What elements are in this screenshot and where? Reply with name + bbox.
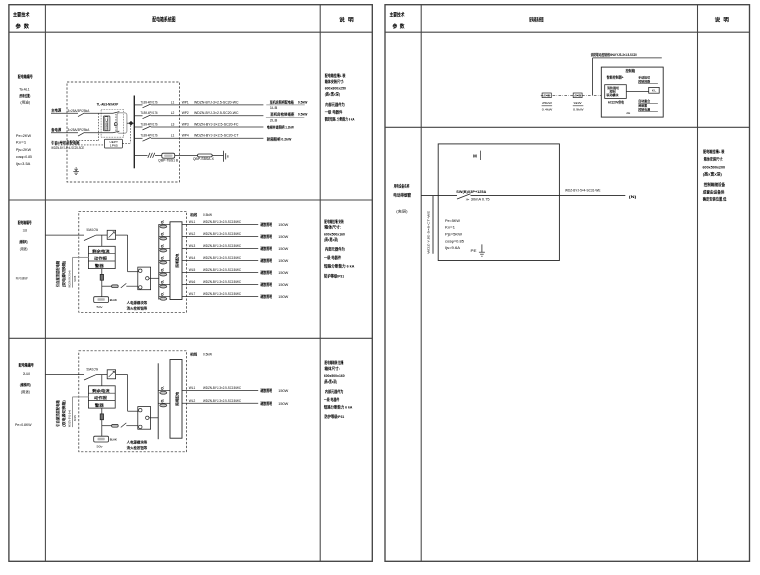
svg-text:9kW: 9kW <box>574 101 582 105</box>
svg-text:成套由设备供: 成套由设备供 <box>703 190 725 195</box>
panel 1LB branch fuse pill <box>112 285 119 288</box>
panel 1LB feeder WL1 pole mark <box>161 221 163 223</box>
svg-text:(用途): (用途) <box>20 246 28 251</box>
panel 2LU8 feeder WL1 stub <box>158 390 170 392</box>
svg-text:50v: 50v <box>97 445 104 449</box>
svg-text:(N): (N) <box>629 194 637 199</box>
JXB1 fraction bar <box>542 105 553 107</box>
svg-text:M: M <box>473 153 477 158</box>
svg-text:150W: 150W <box>278 389 289 393</box>
svg-text:150W: 150W <box>278 247 289 251</box>
panel 2LU8 busbar box <box>170 360 182 439</box>
panel 2LU8 drop to RCD monitor box <box>101 375 103 386</box>
svg-text:箱体尺寸:: 箱体尺寸: <box>324 225 341 230</box>
svg-text:WDZ-BYJ-5×4-SC31-WE: WDZ-BYJ-5×4-SC31-WE <box>565 189 601 193</box>
svg-text:≫ 30mA 0.75: ≫ 30mA 0.75 <box>466 197 490 201</box>
feeder WP4 wire run <box>151 137 264 139</box>
AL1 enclosure dashed box <box>67 82 180 182</box>
panel 2LU8 bell transformer box <box>94 436 109 442</box>
wire ATSE output <box>127 122 134 124</box>
svg-text:WL2: WL2 <box>189 399 196 403</box>
panel 1LB distribution collector line <box>158 224 160 299</box>
panel 1LB bell transformer box <box>94 297 109 303</box>
panel 2LU8 supply elbow vertical <box>72 397 74 427</box>
svg-text:消火栓按钮等: 消火栓按钮等 <box>127 306 148 311</box>
main supply wire <box>421 195 457 197</box>
svg-text:150W: 150W <box>278 271 289 275</box>
panel 2LU8 contactor pole2 circle <box>139 425 142 428</box>
svg-text:600x500x200: 600x500x200 <box>703 164 726 169</box>
svg-text:WL4: WL4 <box>189 256 196 260</box>
feeder WP1 wire run <box>151 104 264 106</box>
svg-text:(高x宽x深): (高x宽x深) <box>324 379 338 384</box>
svg-text:内部元器件为: 内部元器件为 <box>325 102 345 107</box>
feeder WP2 wire from bus <box>134 115 142 117</box>
svg-text:WL5: WL5 <box>189 268 196 272</box>
ATSE motor circle <box>114 123 117 126</box>
right table notes divider x=698 <box>697 5 699 562</box>
dashed control drop left <box>97 113 99 140</box>
panel 1LB feeder WL6 breaker pill <box>160 285 167 288</box>
svg-text:QBP-TBS1 B: QBP-TBS1 B <box>158 159 178 163</box>
svg-text:(双电源切换箱): (双电源切换箱) <box>61 260 66 287</box>
left sheet table frame <box>9 5 372 562</box>
svg-text:配电箱系统图: 配电箱系统图 <box>152 16 176 24</box>
panel 2LU8 feeder WL1 pole mark <box>161 387 163 389</box>
SPD earth bars <box>223 151 225 162</box>
svg-text:SBC: SBC <box>104 118 108 129</box>
dashed drop from output bus <box>130 125 132 143</box>
panel 1LB feeder WL4 stub <box>159 259 170 261</box>
svg-text:WL1: WL1 <box>189 220 196 224</box>
panel 1LB feeder WL2 stub <box>159 235 170 237</box>
right sheet table frame <box>385 5 750 562</box>
svg-text:WL7: WL7 <box>189 292 196 296</box>
svg-text:cosφ=0.85: cosφ=0.85 <box>16 155 32 159</box>
panel 1LB branch switch blade <box>121 283 127 288</box>
riser cable drop <box>432 196 434 254</box>
feeder WP3 wire run <box>151 126 264 128</box>
svg-text:WDZN-BYJ-3×2.5-SC15/WC: WDZN-BYJ-3×2.5-SC15/WC <box>203 280 242 284</box>
dashed control run to UEPT <box>55 144 104 146</box>
svg-text:疏散照明: 疏散照明 <box>260 258 273 263</box>
svg-text:Pe=0.8KW: Pe=0.8KW <box>16 277 28 281</box>
svg-text:Pe=5KW: Pe=5KW <box>445 219 461 223</box>
svg-text:人电源模块等: 人电源模块等 <box>126 300 148 305</box>
svg-text:SC25: SC25 <box>73 275 77 281</box>
svg-text:L1: L1 <box>171 100 175 104</box>
svg-text:确定安装位置.低: 确定安装位置.低 <box>703 196 727 201</box>
junction box JXB2 <box>573 93 582 98</box>
ATSE controller inner rect <box>105 117 108 130</box>
relay box KL <box>649 87 660 93</box>
svg-text:参 数: 参 数 <box>393 22 406 30</box>
junction box JXB1 <box>542 93 551 98</box>
panel 1LB feeder WL5 stub <box>159 271 170 273</box>
svg-text:TL-AE3-NXAXP: TL-AE3-NXAXP <box>97 102 119 106</box>
svg-text:(双电源切换箱): (双电源切换箱) <box>61 399 66 426</box>
svg-text:WDZN-BYJ-3×2.5-SC15/WC: WDZN-BYJ-3×2.5-SC15/WC <box>203 399 242 403</box>
panel 2LU8 contactor output wire <box>149 417 158 419</box>
switch QF2 blade <box>78 132 85 136</box>
panel 1LB feeder WL7 wire run <box>182 296 258 298</box>
SPD2 body QBP-SBSA-X <box>198 154 213 157</box>
wire SPD2 to earth <box>212 155 223 157</box>
svg-text:WDZN-BYJ-4×4-SC25-SCE: WDZN-BYJ-4×4-SC25-SCE <box>51 146 85 150</box>
svg-text:WDZN-BYJ-3×2.5-SC20-CT: WDZN-BYJ-3×2.5-SC20-CT <box>194 134 239 138</box>
right table column divider x=418 <box>420 5 422 562</box>
svg-text:WDZN-BYJ-3×2.5-SC15/WC: WDZN-BYJ-3×2.5-SC15/WC <box>203 386 242 390</box>
panel 1LB feeder WL1 stub <box>159 223 170 225</box>
svg-text:150W: 150W <box>278 259 289 263</box>
panel 1LB branch wire to contactor box <box>126 285 138 287</box>
svg-text:WDZN-BYJ-3×2.5-SC15/WC: WDZN-BYJ-3×2.5-SC15/WC <box>203 232 242 236</box>
panel 2LU8 feeder WL2 wire run <box>182 402 258 404</box>
left table row divider y=203 <box>9 199 372 201</box>
panel 1LB feeder WL4 wire run <box>182 259 258 261</box>
panel 1LB enclosure dashed box <box>79 211 187 312</box>
JXB2 fraction bar <box>573 105 584 107</box>
panel 2LU8 fuse below monitor <box>100 414 103 420</box>
panel 1LB feeder WL5 breaker pill <box>160 273 167 276</box>
svg-text:1P65: 1P65 <box>110 144 118 148</box>
enclosure earth bars <box>73 171 79 173</box>
panel 1LB branch wire to contactor <box>102 285 112 287</box>
svg-text:配电箱暗装 挂墙: 配电箱暗装 挂墙 <box>325 360 344 365</box>
svg-text:150W: 150W <box>278 295 289 299</box>
panel 2LU8 branch wire to contactor box <box>126 425 138 427</box>
feeder WP3 wire from bus <box>134 126 142 128</box>
svg-text:引自4号机房配电箱: 引自4号机房配电箱 <box>51 140 80 145</box>
feeder WP3 switch blade <box>143 126 151 130</box>
svg-text:配电箱挂墙L 装: 配电箱挂墙L 装 <box>325 73 346 78</box>
auto note underline2 <box>638 110 658 112</box>
panel 1LB feeder WL1 wire run <box>182 223 258 225</box>
wire mains-1 incoming <box>51 112 78 114</box>
right table row divider y=127 <box>385 126 750 128</box>
svg-text:WDZN-BYJ-3×2.5-SC20-FC: WDZN-BYJ-3×2.5-SC20-FC <box>194 122 239 126</box>
panel 1LB feeder WL3 breaker pill <box>160 249 167 252</box>
dashed link UEPT right <box>122 142 130 144</box>
right table header row line <box>385 31 750 33</box>
panel 1LB contactor pole1 circle <box>139 269 142 272</box>
svg-text:电动排烟窗: 电动排烟窗 <box>393 191 411 197</box>
panel 2LU8 incoming wire to meter <box>96 374 107 376</box>
svg-text:短路分断能力 6 kA: 短路分断能力 6 kA <box>324 263 355 268</box>
svg-text:150W: 150W <box>278 235 289 239</box>
left table header row line <box>9 31 372 33</box>
feeder WP2 switch blade <box>143 115 151 119</box>
svg-text:KL: KL <box>652 89 657 93</box>
panel 1LB supply elbow horizontal <box>73 256 89 258</box>
svg-text:PE: PE <box>471 249 478 253</box>
feeder WP1 switch blade <box>143 104 151 108</box>
panel 2LU8 drop to bell transformer <box>101 420 103 437</box>
panel 1LB meter-to-contactor wire <box>116 234 128 236</box>
svg-text:(夹层): (夹层) <box>396 209 407 214</box>
panel 1LB feeder WL4 breaker pill <box>160 261 167 264</box>
svg-text:警器: 警器 <box>93 263 104 268</box>
svg-text:WDZN-BYJ-3×2.5-SC20-WC: WDZN-BYJ-3×2.5-SC20-WC <box>194 100 239 104</box>
svg-text:Ta-AL1: Ta-AL1 <box>19 87 30 91</box>
svg-text:WDZN-BYJ-3×2.5-SC15/WC: WDZN-BYJ-3×2.5-SC15/WC <box>203 220 242 224</box>
svg-text:疏散照明: 疏散照明 <box>260 388 273 393</box>
svg-text:150W: 150W <box>278 402 289 406</box>
svg-text:TLB9-4PV176: TLB9-4PV176 <box>141 134 158 138</box>
svg-text:WDZN-BYJ-3×2.5-SC15/WC: WDZN-BYJ-3×2.5-SC15/WC <box>203 268 242 272</box>
panel 2LU8 meter-to-contactor wire <box>116 374 128 376</box>
panel 2LU8 feeder WL2 pole mark <box>161 400 163 402</box>
svg-text:50A/1CW: 50A/1CW <box>87 367 99 371</box>
panel 2LU8 feeder WL2 breaker pill <box>160 404 167 407</box>
svg-text:人电源模块等: 人电源模块等 <box>126 439 148 444</box>
svg-text:WDZN-BYJ-3×2.5-SC20-WC: WDZN-BYJ-3×2.5-SC20-WC <box>194 111 239 115</box>
svg-text:动作报: 动作报 <box>94 395 108 400</box>
svg-text:25kW: 25kW <box>542 101 552 105</box>
panel 1LB RCD monitor box <box>88 246 115 268</box>
svg-text:配电箱挂墙L 装: 配电箱挂墙L 装 <box>703 149 724 154</box>
panel 2LU8 feeder WL1 breaker pill <box>160 391 167 394</box>
panel 2LU8 contactor box <box>138 407 151 430</box>
panel 1LB contactor output wire <box>149 277 159 279</box>
svg-text:0.5kW: 0.5kW <box>298 113 308 117</box>
svg-text:备电源: 备电源 <box>50 127 61 132</box>
svg-text:SC25: SC25 <box>73 415 77 421</box>
svg-text:3×25A/3P/25kA: 3×25A/3P/25kA <box>68 128 90 132</box>
svg-text:引自屋顶层配电箱: 引自屋顶层配电箱 <box>55 400 60 427</box>
control box enclosure <box>601 67 663 117</box>
svg-text:额定短路_分断能力 6 kA: 额定短路_分断能力 6 kA <box>324 117 355 122</box>
svg-text:WL2: WL2 <box>189 232 196 236</box>
panel 1LB feeder WL7 breaker pill <box>160 297 167 300</box>
window controller enclosure box <box>438 144 559 261</box>
svg-text:(高x宽x深): (高x宽x深) <box>703 171 723 176</box>
ATSE output body rounded rect <box>117 113 127 133</box>
control dashed link <box>541 94 602 96</box>
wire mains-2 to ATSE <box>85 132 114 134</box>
panel 2LU8 branch wire to contactor <box>102 425 112 427</box>
svg-text:AC220V供电: AC220V供电 <box>608 99 625 104</box>
panel 1LB incoming wire to meter <box>96 234 107 236</box>
feeder WP1 wire from bus <box>134 104 142 106</box>
fire control line wire <box>593 57 662 59</box>
svg-text:自动重合: 自动重合 <box>638 98 651 103</box>
panel 1LB feeder WL3 stub <box>159 247 170 249</box>
svg-text:消防联动控制线NH-KYJS-3×1.5-SC20: 消防联动控制线NH-KYJS-3×1.5-SC20 <box>591 52 637 57</box>
svg-text:WP1: WP1 <box>182 100 189 104</box>
panel 1LB feeder WL2 wire run <box>182 235 258 237</box>
svg-text:50A/1CW: 50A/1CW <box>87 228 99 232</box>
svg-text:配电箱系统图: 配电箱系统图 <box>529 17 543 24</box>
panel 1LB feeder WL7 pole mark <box>161 293 163 295</box>
svg-text:主要技术: 主要技术 <box>13 11 30 19</box>
feeder WP2 wire run <box>151 115 264 117</box>
svg-text:智能控制器+: 智能控制器+ <box>606 75 624 80</box>
svg-text:消火栓按钮等: 消火栓按钮等 <box>127 445 148 450</box>
svg-text:WL6: WL6 <box>189 280 196 284</box>
svg-text:1LB: 1LB <box>23 229 28 233</box>
svg-text:参 数: 参 数 <box>16 22 30 30</box>
svg-text:(高x宽x深): (高x宽x深) <box>324 237 339 242</box>
svg-text:Ijs=9.6A: Ijs=9.6A <box>445 246 461 250</box>
svg-text:(安装位置): (安装位置) <box>19 93 31 98</box>
svg-text:至机房检修插座: 至机房检修插座 <box>270 112 294 117</box>
svg-text:内部元器件为: 内部元器件为 <box>325 389 344 394</box>
svg-text:箱体安装尺寸:: 箱体安装尺寸: <box>325 79 345 84</box>
svg-text:电梯井道照明 1.2kW: 电梯井道照明 1.2kW <box>267 125 295 130</box>
svg-text:一级 电器件: 一级 电器件 <box>324 255 341 260</box>
svg-text:用电设备名称: 用电设备名称 <box>393 183 409 188</box>
control module output wire <box>626 91 648 93</box>
main switch blade <box>457 194 471 199</box>
svg-text:控制回路: 控制回路 <box>638 78 651 83</box>
svg-text:疏散照明: 疏散照明 <box>260 234 273 239</box>
svg-text:WDZN-BYJ-3×2.5-SC15/WC: WDZN-BYJ-3×2.5-SC15/WC <box>203 292 242 296</box>
svg-text:主电源: 主电源 <box>51 108 61 113</box>
panel 1LB feeder WL5 wire run <box>182 271 258 273</box>
svg-text:内部元器件为: 内部元器件为 <box>325 246 345 251</box>
enclosure earth arrow <box>75 167 78 171</box>
left table column divider x=45 <box>44 5 46 562</box>
svg-text:Kx=1: Kx=1 <box>16 140 26 144</box>
auto note underline1 <box>638 102 658 104</box>
SPD branch wire <box>134 155 147 157</box>
svg-text:1LB: 1LB <box>270 106 279 110</box>
PE earth symbol <box>481 244 483 252</box>
svg-text:WDZN-BYJ-3×2.5-SC15/WC: WDZN-BYJ-3×2.5-SC15/WC <box>203 244 242 248</box>
AL1 main bus <box>133 96 135 169</box>
panel 1LB contactor box <box>138 267 151 290</box>
panel 1LB feeder WL7 stub <box>159 296 170 298</box>
svg-text:JXB: JXB <box>543 93 550 97</box>
svg-text:Kx=1: Kx=1 <box>445 226 455 230</box>
svg-text:TLB9-4PV176: TLB9-4PV176 <box>141 122 158 126</box>
svg-text:照明配电: 照明配电 <box>175 391 180 406</box>
panel 2LU8 branch fuse pill <box>112 424 119 427</box>
svg-text:说 明: 说 明 <box>339 15 354 23</box>
svg-text:轿厢照明 0.2kW: 轿厢照明 0.2kW <box>267 136 292 141</box>
motor tick <box>480 151 482 160</box>
svg-text:2LU8: 2LU8 <box>23 372 30 376</box>
svg-text:疏散照明: 疏散照明 <box>260 246 273 251</box>
svg-text:0.5kW: 0.5kW <box>203 213 213 217</box>
svg-text:箱体安装尺寸:: 箱体安装尺寸: <box>704 156 723 161</box>
panel 2LU8 contactor output circle <box>146 416 149 419</box>
ATSE blade bottom <box>113 131 119 133</box>
svg-text:配电箱编号: 配电箱编号 <box>19 362 34 369</box>
svg-text:一级 电器件: 一级 电器件 <box>325 109 343 114</box>
svg-text:3×25A/3P/25kA: 3×25A/3P/25kA <box>68 109 90 113</box>
panel 1LB feeder WL3 pole mark <box>161 245 163 247</box>
panel 2LU8 distribution collector line <box>157 363 159 439</box>
panel 1LB kWh meter symbol <box>109 232 115 238</box>
panel 2LU8 incoming switch blade <box>84 375 96 380</box>
svg-text:控制电源: 控制电源 <box>638 106 650 111</box>
left table row divider y=335 <box>9 337 372 339</box>
svg-text:0.9kW: 0.9kW <box>573 108 584 112</box>
svg-text:(用途): (用途) <box>21 389 30 394</box>
svg-text:警器: 警器 <box>93 402 104 407</box>
svg-text:说 明: 说 明 <box>715 15 729 23</box>
svg-text:Pe=0.8KW: Pe=0.8KW <box>15 423 32 427</box>
feeder WP1 label underline <box>266 104 305 106</box>
manual note underline <box>638 82 658 84</box>
feeder WP4 wire from bus <box>134 137 142 139</box>
panel 2LU8 RCD monitor box <box>88 386 115 408</box>
panel 2LU8 branch switch blade <box>121 423 127 428</box>
panel 1LB feeder WL6 stub <box>159 283 170 285</box>
svg-text:照明配电: 照明配电 <box>175 253 180 268</box>
svg-text:主要技术: 主要技术 <box>390 11 406 19</box>
svg-text:一级 电器件: 一级 电器件 <box>324 397 340 402</box>
svg-text:600x500x160: 600x500x160 <box>324 374 345 378</box>
panel 1LB feeder WL3 wire run <box>182 247 258 249</box>
wire mains-2 incoming <box>51 132 78 134</box>
panel 2LU8 feeder WL1 wire run <box>182 390 258 392</box>
panel 1LB kWh meter box <box>107 230 115 239</box>
svg-text:TLB9-4PV176: TLB9-4PV176 <box>141 100 158 104</box>
svg-text:剩余电流: 剩余电流 <box>92 248 110 253</box>
svg-text:联动模块: 联动模块 <box>607 92 620 97</box>
svg-text:WP2: WP2 <box>182 111 189 115</box>
svg-text:WDZN-BYJ-5×6: WDZN-BYJ-5×6 <box>67 410 71 427</box>
svg-text:疏散照明: 疏散照明 <box>260 401 273 406</box>
panel 1LB feeder WL1 breaker pill <box>160 225 167 228</box>
svg-text:控制箱随设备: 控制箱随设备 <box>704 182 725 187</box>
svg-text:(楼梯间): (楼梯间) <box>19 239 28 244</box>
svg-text:疏散照明: 疏散照明 <box>260 270 273 275</box>
svg-text:动作报: 动作报 <box>94 256 108 261</box>
svg-text:引自屋顶层配电箱: 引自屋顶层配电箱 <box>55 261 60 288</box>
svg-text:TLB9-4PV176: TLB9-4PV176 <box>141 111 158 115</box>
svg-text:WP3: WP3 <box>182 122 189 126</box>
svg-text:SW(B)X3P+125A: SW(B)X3P+125A <box>456 190 487 194</box>
svg-text:(高x宽x深): (高x宽x深) <box>325 92 341 97</box>
ATSE output junction diamond <box>129 121 134 126</box>
svg-text:WDZ-YJE-5×6-CT-WE: WDZ-YJE-5×6-CT-WE <box>427 211 431 254</box>
svg-text:Pe=2KW: Pe=2KW <box>16 134 32 138</box>
panel 2LU8 supply elbow horizontal <box>73 396 89 398</box>
svg-text:50v: 50v <box>97 305 104 309</box>
panel 1LB busbar box <box>170 222 182 300</box>
panel 1LB drop to bell transformer <box>101 280 103 297</box>
panel 1LB feeder WL6 pole mark <box>161 281 163 283</box>
svg-text:JXB: JXB <box>574 93 581 97</box>
svg-text:600x500x160: 600x500x160 <box>324 232 345 236</box>
svg-text:BLAK: BLAK <box>110 438 118 442</box>
svg-text:疏散照明: 疏散照明 <box>260 282 273 287</box>
svg-text:相线: 相线 <box>190 351 198 356</box>
svg-text:L2: L2 <box>171 111 175 115</box>
svg-text:Pjs=5KW: Pjs=5KW <box>445 233 463 237</box>
svg-text:至机房照明配电箱: 至机房照明配电箱 <box>270 100 294 105</box>
panel 2LU8 feeder WL2 stub <box>158 402 170 404</box>
svg-text:防护等级IP31: 防护等级IP31 <box>325 414 345 419</box>
wire mains-1 to ATSE <box>85 112 114 114</box>
svg-text:配电箱编号: 配电箱编号 <box>18 73 33 80</box>
svg-text:cosφ=0.85: cosφ=0.85 <box>445 239 464 243</box>
panel 2LU8 incoming wire from column <box>45 374 84 376</box>
panel 1LB contactor pole2 circle <box>139 286 142 289</box>
svg-text:BLAK: BLAK <box>110 298 118 302</box>
switch QF1 blade <box>78 113 85 117</box>
ATSE interlock dashed link <box>115 114 117 132</box>
svg-text:(用途): (用途) <box>20 99 30 104</box>
control module box <box>605 85 627 99</box>
svg-text:600x800x250: 600x800x250 <box>325 87 346 91</box>
panel 1LB fuse below monitor <box>100 274 103 280</box>
svg-text:0.4kW: 0.4kW <box>542 108 553 112</box>
